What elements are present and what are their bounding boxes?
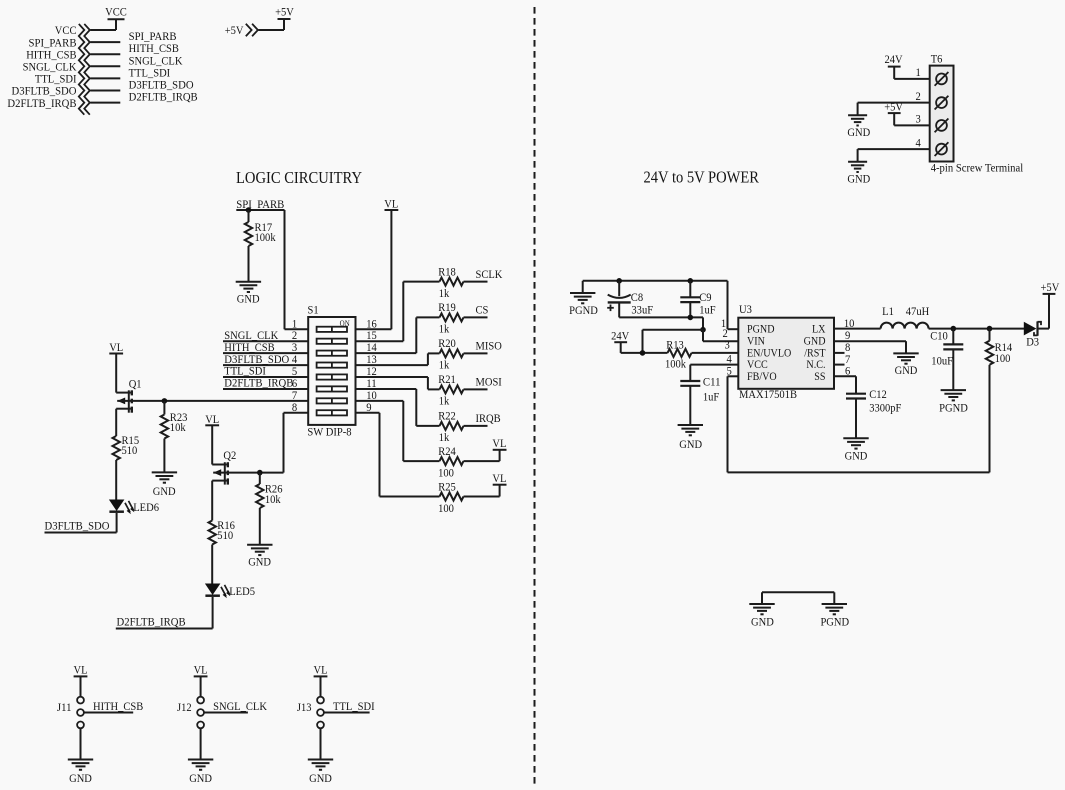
svg-text:R21: R21 [438,372,456,386]
wire L1 to D3 [929,328,1025,330]
svg-text:VL: VL [314,663,328,677]
net label D3FLTB_SDO (LED6) [45,518,110,532]
junction rail/C9 [688,278,694,284]
LED LED6 [109,500,159,515]
svg-text:1k: 1k [439,322,450,336]
svg-text:PGND: PGND [747,324,775,336]
power symbol VL (R25) [492,471,506,485]
net label SNGL_CLK (left stack) [23,60,77,74]
svg-text:VL: VL [492,436,506,450]
svg-text:T6: T6 [931,52,943,66]
wire SNGL_CLK to S1 pin 2 [223,340,308,342]
svg-text:VL: VL [492,471,506,485]
svg-text:1k: 1k [439,430,450,444]
ground GND (R23) [152,472,177,497]
pin numbers T6 [916,65,921,149]
power symbol VCC (top left) [105,5,127,20]
resistor R23 [161,401,188,472]
svg-text:Q1: Q1 [129,376,142,390]
title LOGIC CIRCUITRY [236,168,362,187]
wire J11 pin 2 to HITH_CSB [84,712,133,714]
wire SNGL_CLK stub [90,65,120,67]
power symbol VL (above S1) [384,197,398,211]
wire LED6 to D3FLTB_SDO [45,513,117,533]
svg-text:GND: GND [309,771,332,785]
net label MOSI [476,375,502,389]
resistor R25 [438,479,463,515]
wire U3 pin 6 (SS) to C12 [834,376,856,393]
svg-text:1k: 1k [439,358,450,372]
wire GND to PGND net tie [762,592,834,604]
net label TTL_SDI (right of chevron) [129,65,171,79]
wire R18 to SCLK [464,281,488,283]
svg-text:R24: R24 [438,444,456,458]
svg-text:1uF: 1uF [703,390,720,404]
IC U3 body [738,302,834,401]
wire R14 to feedback rail [989,365,991,473]
pin numbers S1 left (1-8) [292,316,297,414]
wire S1 pin 15 to R18 [356,282,440,342]
svg-text:3: 3 [916,112,921,126]
svg-text:VIN: VIN [747,335,765,347]
net label +5V (chevron input) [225,23,244,37]
power symbol +5V (T6) [884,100,903,114]
capacitor C8 [607,281,653,318]
svg-text:100: 100 [438,501,454,515]
net label D3FLTB_SDO (S1 pin 4) [224,352,289,366]
net label D3FLTB_SDO (left stack) [12,84,77,98]
svg-text:4: 4 [916,135,921,149]
wire VIN node to U3 pin 2 [703,330,738,342]
wire R22 to IRQB [464,425,488,427]
ground GND (C11) [678,425,703,451]
wire TTL_SDI to S1 pin 5 [223,376,308,378]
svg-text:VL: VL [109,340,123,354]
net label D3FLTB_SDO (right of chevron) [129,78,194,92]
svg-text:PGND: PGND [569,303,598,317]
ground GND (R26) [247,545,272,569]
wire D3 to +5V [1038,294,1050,329]
svg-text:R19: R19 [438,300,456,314]
net label HITH_CSB (left stack) [26,47,76,61]
svg-text:D2FLTB_IRQB: D2FLTB_IRQB [117,615,186,629]
svg-text:GND: GND [679,437,702,451]
net label SNGL_CLK (right of chevron) [129,53,183,67]
resistor R20 [438,336,463,372]
net label D2FLTB_IRQB (right of chevron) [129,90,198,104]
svg-text:100k: 100k [665,356,686,370]
power symbol VL (R24) [492,436,506,450]
pin numbers U3 right (10,9,8,7,6) [844,316,855,378]
svg-text:VL: VL [384,197,398,211]
stub U3 pin 8 /RST [834,352,845,354]
connector J11 [57,697,84,729]
wire D2FLTB_IRQB to S1 pin 6 [223,388,308,390]
net label HITH_CSB (J11) [93,699,143,713]
net label HITH_CSB (right of chevron) [129,41,179,55]
junction LX/R14 [987,326,993,332]
wire R20 to MISO [464,352,488,354]
wire C8/C9 bottoms to VIN node [619,317,703,329]
wire SPI_PARB stub [90,41,120,43]
ground GND (J11) [68,760,93,785]
svg-text:D3FLTB_SDO: D3FLTB_SDO [45,518,110,532]
wire R19 to CS [464,316,488,318]
svg-text:LED6: LED6 [133,500,159,514]
junction rail/C8 [616,278,622,284]
screw terminal T6 pin 2 [935,96,949,110]
wire VL to S1 pin 16 [356,210,392,329]
wire J13 pin 3 to GND [320,728,322,759]
svg-text:FB/VO: FB/VO [747,371,777,383]
svg-text:510: 510 [122,443,138,457]
svg-text:24V: 24V [885,52,903,66]
pin numbers S1 right (16-9) [366,316,377,414]
net label CS [476,303,489,317]
svg-text:EN/UVLO: EN/UVLO [747,347,791,359]
svg-text:J13: J13 [297,700,312,714]
power symbol VL (J12) [194,663,208,677]
svg-text:LOGIC CIRCUITRY: LOGIC CIRCUITRY [236,168,362,187]
svg-text:HITH_CSB: HITH_CSB [93,699,143,713]
resistor R18 [438,264,463,300]
ground PGND (input rail) [569,281,598,317]
LED LED5 [205,584,255,599]
svg-text:100k: 100k [255,230,276,244]
svg-text:8: 8 [292,400,297,414]
wire R15 to LED6 [115,460,117,500]
power symbol VL (Q1) [109,340,123,354]
svg-text:IRQB: IRQB [476,411,501,425]
svg-text:2: 2 [916,89,921,103]
screw terminal T6 pin 3 [935,119,949,133]
title 24V to 5V POWER [644,167,760,186]
ground GND (J13) [308,760,333,785]
svg-text:D2FLTB_IRQB: D2FLTB_IRQB [129,90,198,104]
wire S1 pin 9 to R25 [356,413,440,497]
svg-text:SS: SS [814,371,825,383]
svg-text:10k: 10k [265,492,281,506]
net label SPI_PARB (left stack) [29,35,77,49]
svg-text:C11: C11 [703,375,721,389]
resistor R19 [438,300,463,336]
svg-text:33uF: 33uF [631,303,653,317]
screw terminal T6 pin 4 [935,142,949,156]
svg-text:R20: R20 [438,336,456,350]
svg-text:C12: C12 [869,387,887,401]
dashed page divider [534,7,536,785]
wire Q2 gate to S1 pin 8 [213,413,308,473]
ground GND (T6 pin 2) [847,115,870,139]
wire T6 pin 4 to GND [858,149,930,162]
svg-text:J12: J12 [177,700,192,714]
svg-text:L1: L1 [882,304,894,318]
svg-text:PGND: PGND [939,400,968,414]
svg-text:LX: LX [812,324,826,336]
resistor R26 [256,473,282,545]
wire PGND rail to U3 pin 1 [583,281,739,329]
power symbol +5V (top) [275,4,294,19]
svg-text:GND: GND [237,291,260,305]
wire J11 pin 3 to GND [80,728,82,759]
svg-text:GND: GND [804,335,826,347]
resistor R21 [438,372,463,408]
svg-text:GND: GND [847,171,870,185]
wire feedback rail to U3 pin 5 [728,376,990,472]
net label SNGL_CLK (J12) [213,699,267,713]
wire +5V to T6 pin 3 [894,113,930,125]
svg-text:GND: GND [189,771,212,785]
wire U3 pin 4 to C11 [690,365,738,381]
svg-text:VCC: VCC [747,359,768,371]
svg-text:24V to 5V POWER: 24V to 5V POWER [644,167,760,186]
ground GND (C12) [843,438,868,462]
svg-text:1uF: 1uF [699,303,716,317]
pin numbers U3 left (1-5) [721,316,732,378]
svg-text:D2FLTB_IRQB: D2FLTB_IRQB [224,376,293,390]
net label SPI_PARB [236,197,284,211]
net label IRQB [476,411,501,425]
wire VL to J11 pin 1 [80,676,82,696]
net label SPI_PARB (right of chevron) [129,29,177,43]
wire TTL_SDI stub [90,77,120,79]
junction Q1 gate / R23 [162,398,168,404]
svg-text:GND: GND [845,448,868,462]
svg-text:VL: VL [205,412,219,426]
net label TTL_SDI (S1 pin 5) [224,364,266,378]
connector J13 [297,697,324,729]
svg-text:47uH: 47uH [906,304,930,318]
ground GND (R17) [236,282,261,306]
wire VCC chevron to VCC symbol [90,19,116,30]
inductor L1 47uH [881,304,930,328]
net label MISO [476,339,503,353]
svg-text:1: 1 [916,65,921,79]
wire D3FLTB_SDO stub [90,90,120,92]
wire U3 pin 9 to GND [834,341,906,353]
wire R16 to LED5 [211,545,213,584]
connector J12 [177,697,204,729]
wire U3 pin 10 (LX) to L1 [834,328,881,330]
svg-text:GND: GND [69,771,92,785]
ground GND (J12) [188,760,213,785]
svg-text:GND: GND [847,125,870,139]
svg-text:MISO: MISO [476,339,503,353]
power symbol +5V (output) [1041,280,1060,294]
svg-text:VL: VL [194,663,208,677]
svg-text:PGND: PGND [820,614,849,628]
svg-text:SPI_PARB: SPI_PARB [236,197,284,211]
svg-text:3: 3 [725,338,730,352]
svg-text:D3: D3 [1026,335,1039,349]
svg-text:R18: R18 [438,264,456,278]
junction Q2 gate / R26 [257,470,263,476]
off-page connector chevrons (input stack) [79,24,90,115]
svg-text:4-pin Screw Terminal: 4-pin Screw Terminal [931,161,1024,175]
wire S1 pin 10 to R24 [356,401,440,461]
wire VL to J13 pin 1 [320,676,322,696]
net label D2FLTB_IRQB (LED5) [117,615,186,629]
caption 4-pin Screw Terminal [931,161,1024,175]
wire S1 pin 14 to R19 [356,317,440,353]
capacitor C11 [680,375,720,425]
svg-text:MOSI: MOSI [476,375,502,389]
svg-text:24V: 24V [611,328,629,342]
svg-text:VL: VL [74,663,88,677]
wire VL to J12 pin 1 [200,676,202,696]
resistor R17 [245,210,276,282]
transistor Q1 [116,376,141,412]
wire S1 pin 13 to R20 [356,353,440,365]
wire HITH_CSB to S1 pin 3 [223,352,308,354]
svg-text:VCC: VCC [105,5,127,19]
junction SPI_PARB/R17 [246,207,252,213]
net label D2FLTB_IRQB (left stack) [7,96,76,110]
wire T6 pin 2 to GND [858,103,930,116]
power symbol 24V (U3) [611,328,629,342]
net label VCC (left stack) [55,23,77,37]
ground GND (U3 pin 9) [893,353,918,377]
wire Q1 source to R15 [115,409,117,436]
junction 24V/R13 [640,350,646,356]
resistor R16 [209,518,235,545]
wire 24V node to VIN node [643,330,704,353]
svg-text:510: 510 [217,528,233,542]
resistor R13 [665,337,692,370]
ground GND (net tie) [749,604,774,628]
resistor R24 [438,444,463,480]
screw terminal T6 pin 1 [935,72,949,86]
wire R25 to VL [464,485,500,497]
svg-text:100: 100 [995,351,1011,365]
wire VL to Q1 drain [115,354,117,393]
svg-text:N.C.: N.C. [806,359,825,371]
svg-text:+5V: +5V [275,4,294,18]
net label TTL_SDI (J13) [333,699,375,713]
svg-text:1k: 1k [439,394,450,408]
capacitor C9 [680,281,716,318]
connector T6 body [930,52,954,162]
wire R13 to U3 pin 3 [692,352,739,354]
svg-text:9: 9 [366,400,371,414]
svg-text:SNGL_CLK: SNGL_CLK [213,699,267,713]
net label SNGL_CLK (S1 pin 2) [224,328,278,342]
ground PGND (C10) [939,390,968,414]
svg-text:1k: 1k [439,286,450,300]
wire VL to Q2 drain [211,425,213,464]
junction LX/C10 [951,326,957,332]
resistor R22 [438,409,463,445]
diode D3 (schottky) [1024,321,1041,348]
svg-text:R13: R13 [666,337,684,351]
wire D2FLTB_IRQB stub [90,102,120,104]
svg-text:GND: GND [153,484,176,498]
svg-text:GND: GND [248,554,271,568]
switch S1 body (SW DIP-8) [307,303,355,439]
wire J12 pin 2 to SNGL_CLK [204,712,248,714]
svg-text:Q2: Q2 [223,448,236,462]
net label SCLK [476,267,503,281]
svg-text:MAX17501B: MAX17501B [739,387,797,401]
svg-text:GND: GND [751,614,774,628]
wire SPI_PARB to S1 pin 1 [236,210,308,329]
net label TTL_SDI (left stack) [35,72,77,86]
capacitor C12 [846,387,902,438]
svg-text:D2FLTB_IRQB: D2FLTB_IRQB [7,96,76,110]
resistor R15 [113,433,140,460]
power symbol VL (J11) [74,663,88,677]
ground PGND (net tie) [820,604,849,628]
wire HITH_CSB stub [90,53,120,55]
transistor Q2 [212,448,236,484]
svg-text:SW DIP-8: SW DIP-8 [307,425,351,439]
off-page connector chevron +5V [246,24,258,36]
resistor R14 [986,329,1012,366]
junction C9 bottom [688,315,694,321]
svg-text:R22: R22 [438,409,456,423]
svg-text:CS: CS [476,303,489,317]
svg-text:SCLK: SCLK [476,267,503,281]
stub U3 pin 7 N.C. [834,364,845,366]
svg-text:+5V: +5V [1041,280,1060,294]
svg-text:J11: J11 [57,700,72,714]
svg-text:S1: S1 [308,303,319,317]
svg-text:GND: GND [895,363,918,377]
svg-text:R25: R25 [438,479,456,493]
svg-text:LED5: LED5 [229,584,255,598]
wire LED5 to D2FLTB_IRQB [116,597,213,629]
wire J12 pin 3 to GND [200,728,202,759]
wire S1 pin 11 to R22 [356,389,440,426]
svg-text:100: 100 [438,465,454,479]
wire Q2 source to R16 [211,481,213,521]
wire R21 to MOSI [464,388,488,390]
svg-text:3300pF: 3300pF [869,400,901,414]
svg-text:+5V: +5V [884,100,903,114]
net label HITH_CSB (S1 pin 3) [224,340,274,354]
wire +5V chevron to +5V symbol [259,19,285,30]
net label D2FLTB_IRQB (S1 pin 6) [224,376,293,390]
svg-text:10k: 10k [170,420,186,434]
junction VIN node [700,327,706,333]
svg-text:+5V: +5V [225,23,244,37]
wire R24 to VL [464,450,500,461]
capacitor C10 [930,328,963,390]
power symbol VL (J13) [314,663,328,677]
wire J13 pin 2 to TTL_SDI [324,712,370,714]
svg-text:/RST: /RST [804,347,825,359]
ground GND (T6 pin 4) [847,162,870,186]
power symbol VL (Q2) [205,412,219,426]
svg-text:C10: C10 [930,328,948,342]
wire 24V to R13 [621,342,668,353]
svg-text:U3: U3 [739,302,752,316]
svg-text:TTL_SDI: TTL_SDI [333,699,375,713]
wire D3FLTB_SDO to S1 pin 4 [223,364,308,366]
wire S1 pin 12 to R21 [356,377,440,389]
svg-text:10uF: 10uF [931,354,953,368]
power symbol 24V (T6) [885,52,903,67]
wire 24V to T6 pin 1 [894,67,930,79]
wire Q1 gate to S1 pin 7 [117,400,308,402]
